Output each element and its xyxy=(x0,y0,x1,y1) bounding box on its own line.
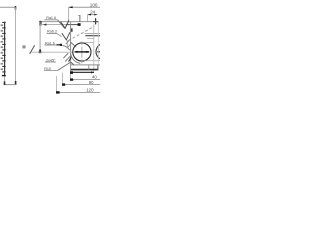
roughness check 2 xyxy=(62,33,67,40)
slash text xyxy=(22,45,25,48)
callout 5 underline xyxy=(44,70,57,72)
leader into circle xyxy=(71,43,76,48)
bottom edge 3 xyxy=(71,71,95,73)
dim 120 xyxy=(57,91,100,93)
svg-text:Ra6.3: Ra6.3 xyxy=(47,30,57,34)
horizontal centerline xyxy=(32,51,74,53)
small tick near x80 xyxy=(79,15,81,22)
dim 24 line xyxy=(88,14,98,16)
chamfer xyxy=(71,62,74,65)
part left edge xyxy=(39,22,41,53)
extension verticals bottom xyxy=(56,76,58,92)
dark specks near edge xyxy=(70,28,72,31)
svg-text:100: 100 xyxy=(90,3,98,8)
boss arc xyxy=(71,54,81,64)
bottom edge 2 dark xyxy=(71,69,98,71)
left view bottom edge xyxy=(4,84,17,86)
ladder dark foot xyxy=(4,81,6,85)
callout 1 underline xyxy=(45,19,58,21)
dim 90 xyxy=(63,84,100,86)
second line right blob xyxy=(66,24,80,26)
circle diameter dimension xyxy=(75,51,90,53)
hatch lower xyxy=(63,53,68,58)
callout 2 underline xyxy=(47,33,58,35)
left view right edge dark foot xyxy=(15,81,17,85)
dim 24 right tick xyxy=(95,18,97,24)
svg-text:40: 40 xyxy=(92,74,97,79)
callout 3 dark leader seg xyxy=(57,44,62,46)
roughness check 1 xyxy=(61,22,66,29)
dim 100 extension xyxy=(68,7,70,21)
step arc xyxy=(62,45,70,49)
inner vertical xyxy=(66,40,68,48)
ladder dimension line xyxy=(4,22,6,77)
callout 4 underline xyxy=(45,61,56,63)
part top edge xyxy=(40,21,99,23)
svg-text:120: 120 xyxy=(86,88,94,93)
callout 1 leader xyxy=(58,20,65,28)
ladder last tick xyxy=(2,75,6,77)
dim 40 xyxy=(71,79,100,81)
bottom edge 1 xyxy=(71,64,100,66)
part left edge dark foot xyxy=(39,50,41,54)
second circle centerline dash xyxy=(97,51,100,53)
dim 100 line xyxy=(69,6,100,8)
part top-left corner blob xyxy=(39,21,41,26)
left view top edge xyxy=(0,6,16,8)
ladder ticks xyxy=(2,22,5,72)
slash mark xyxy=(30,45,35,54)
vertical x94 xyxy=(93,24,95,72)
part second top line xyxy=(41,24,80,26)
short vertical between bottom edges xyxy=(88,65,90,70)
second line left arrow xyxy=(43,24,46,26)
circle xyxy=(73,43,91,61)
hatch upper xyxy=(66,38,71,44)
right edge xyxy=(97,22,99,70)
callout 2 leader xyxy=(57,34,62,37)
callout 5 leader xyxy=(57,62,70,70)
left view top-right tick xyxy=(15,6,17,10)
right horizontals xyxy=(85,33,100,35)
svg-text:24: 24 xyxy=(90,9,95,14)
dim 24 arrows xyxy=(88,14,91,16)
ladder tiny labels xyxy=(1,24,4,70)
second circle arc xyxy=(96,43,113,60)
svg-text:90: 90 xyxy=(89,80,94,85)
circle vertical centerline xyxy=(81,41,83,45)
part main vertical edge xyxy=(70,22,72,74)
dim 100 arrow xyxy=(69,6,73,8)
callout 3 underline xyxy=(45,44,57,46)
left view right edge xyxy=(15,7,17,84)
dashed diagonal xyxy=(68,26,94,40)
dim 24 extension xyxy=(87,15,89,22)
